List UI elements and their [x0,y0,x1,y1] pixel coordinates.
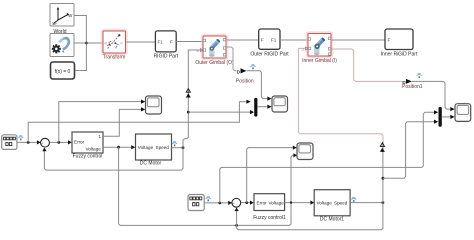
block Transform (selected) [102,30,127,54]
scope ScopeM [272,96,288,112]
junction error1 [57,141,60,144]
block Outer Gimbal (O) (selected) [202,35,227,59]
block Signal Builder 2 [188,195,204,211]
svg-text:RIGID Part: RIGID Part [154,54,179,60]
antenna DC Motor1 [351,197,356,202]
svg-text:Position: Position [236,79,254,85]
junction drive2 [382,177,385,180]
block Fuzzy control1 [254,194,285,211]
wire siggen1 to sum1 [17,141,37,143]
svg-text:Outer RIGID Part: Outer RIGID Part [250,52,289,58]
junction siggen2 [218,202,221,205]
block Inner RIGID Part [385,29,413,50]
wire World to junction [74,16,86,44]
svg-text:Voltage: Voltage [269,201,285,206]
svg-text:Speed: Speed [334,201,348,206]
wire error1 to scope1 input1 [59,102,141,143]
svg-text:F: F [388,38,391,43]
mux Mux3 [439,107,442,127]
svg-text:Voltage: Voltage [86,147,102,152]
svg-text:F: F [170,40,173,45]
block World [50,4,74,27]
block Mechanism Configuration [50,34,74,57]
svg-text:Position1: Position1 [402,84,423,90]
svg-text:Inner Gimbal (I): Inner Gimbal (I) [302,58,337,64]
wire voltage1 down to inner loop (scope2 input2 and sum2) [119,147,294,225]
svg-text:Transform: Transform [103,55,126,61]
wire Outer Gimbal to Outer RIGID Part [227,39,259,41]
svg-text:Voltage: Voltage [317,201,333,206]
mux Mux2 [254,98,257,117]
wire mux3 out to scope3 [442,116,451,118]
junction to sum2 bottom [235,224,238,227]
junction drive to mux2 [187,111,190,114]
svg-text:Outer Gimbal (O): Outer Gimbal (O) [195,60,234,66]
junction voltage1 [117,146,120,149]
wire mux2 out to scopeM [257,106,267,108]
wire fuzzy out1 to scope1 input2 [103,109,141,136]
junction siggen1 [27,141,30,144]
chevrons inner drive [380,143,384,147]
wire solver to junction [75,43,86,71]
block DC Motor [136,134,172,160]
svg-text:F: F [261,38,264,43]
svg-text:DC Motor1: DC Motor1 [320,217,344,223]
wire sum2 to fuzzy1 [241,202,250,204]
svg-text:Speed: Speed [156,145,170,150]
wire speed up to outer gimbal D [183,50,200,148]
wire inner position q line (pink) [332,49,403,81]
wire speed1 up to inner gimbal D (pink) [382,142,384,203]
wire Outer RIGID Part to Inner Gimbal [280,39,308,41]
wire speed1 out [350,202,383,204]
scope Scope3 [455,104,471,122]
sum Sum2 [232,198,241,209]
svg-text:Error: Error [74,140,85,145]
antenna siggen1 [18,136,23,141]
svg-text:F1: F1 [158,40,164,45]
antenna Position1 [417,73,422,78]
antenna siggen2 [206,197,211,202]
junction error2 [245,201,248,204]
junction voltage2 scope tap [290,201,292,203]
block DC Motor1 [314,190,350,216]
svg-text:DC Motor: DC Motor [140,161,162,167]
wire Inner Gimbal to Inner RIGID Part [332,39,385,41]
svg-text:Inner RiGiD Part: Inner RiGiD Part [381,52,418,58]
svg-text:W: W [68,13,73,18]
block Outer RIGID Part [259,29,280,49]
wire to mux3 input2 [383,122,434,179]
scope Scope2 [297,143,313,160]
wire mechanism to Transform [74,42,103,44]
wire siggen2 to sum2 [204,202,228,204]
junction dot W cluster [85,42,88,45]
svg-text:Voltage: Voltage [138,145,154,150]
wire position to scopeM [247,71,268,99]
svg-text:F1: F1 [271,38,277,43]
wire RIGID Part to Outer Gimbal [176,41,203,43]
wire reference2 to mux3 input1 [220,112,434,203]
svg-text:f(x) = 0: f(x) = 0 [55,69,71,75]
wire speed out [172,147,184,149]
block Fuzzy control [72,132,103,153]
antenna DC Motor [172,142,177,147]
junction speed2 [382,201,385,204]
wire position1 to scope3 [412,81,451,109]
wire fuzzy1 to DC Motor1 [285,202,311,204]
wire fuzzy voltage to DC Motor [103,146,131,148]
block Inner Gimbal (I) (selected) [307,33,332,58]
wire sum1 to fuzzy [50,141,68,143]
chevrons outer drive [186,89,190,93]
wire error2 to scope2 input1 [247,148,293,203]
svg-text:Fuzzy control1: Fuzzy control1 [253,215,286,221]
wire feedback1 to sum1 [44,148,183,170]
sum Sum1 [41,138,50,149]
wire reference1 to mux2 input 1 [28,102,246,143]
wire outer position q line [226,47,237,71]
wire to mux2 input2 [188,111,250,113]
wire feedback2 to sum2 [237,203,383,230]
svg-text:Fuzzy control: Fuzzy control [73,154,103,160]
block Signal Builder 1 [2,135,17,150]
block RIGID Part [155,31,176,52]
block Solver f(x)=0 [51,62,75,79]
svg-text:Error: Error [257,201,268,206]
scope Scope1 [146,96,162,114]
svg-text:1: 1 [99,134,102,139]
antenna Position [250,65,255,70]
junction speed1 [182,146,185,149]
wire Transform to RIGID Part [127,41,156,43]
